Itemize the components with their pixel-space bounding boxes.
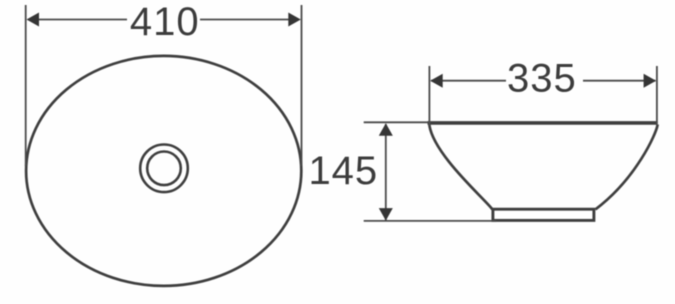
drain inner circle xyxy=(147,152,181,186)
dimension 335: left extension line xyxy=(428,66,430,126)
dimension 335: left arrowhead xyxy=(430,74,443,88)
dimension 410: left arrowhead xyxy=(27,13,40,27)
dimension 145: bottom extension line xyxy=(364,220,496,222)
dimension 145: bottom arrowhead xyxy=(379,208,393,221)
basin side view: left bowl wall xyxy=(429,125,492,210)
drain outer circle xyxy=(140,145,188,193)
dimension 145: top extension line xyxy=(364,121,429,123)
dimension 410: dimension line left segment xyxy=(28,19,127,21)
dimension 335: dimension line left segment xyxy=(431,80,506,82)
svg-text:410: 410 xyxy=(130,0,200,44)
dimension 335: dimension line right segment xyxy=(583,80,656,82)
svg-text:335: 335 xyxy=(507,57,577,101)
dimension 145: top arrowhead xyxy=(379,123,393,136)
basin top view: outer oval rim xyxy=(26,56,301,286)
dimension 145: vertical dimension line xyxy=(385,124,387,220)
dimension 410: right extension line xyxy=(301,5,303,166)
dimension 335: right arrowhead xyxy=(644,74,657,88)
dimension 410: left extension line xyxy=(25,5,27,166)
dimension 410: right arrowhead xyxy=(288,13,301,27)
dimension 410: dimension line right segment xyxy=(200,19,299,21)
dimension 335: right extension line xyxy=(656,66,658,126)
basin side view: right bowl wall xyxy=(595,125,657,210)
svg-text:145: 145 xyxy=(308,149,378,193)
basin side view: foot ring base xyxy=(493,209,594,220)
basin side view: rim line xyxy=(428,121,658,125)
